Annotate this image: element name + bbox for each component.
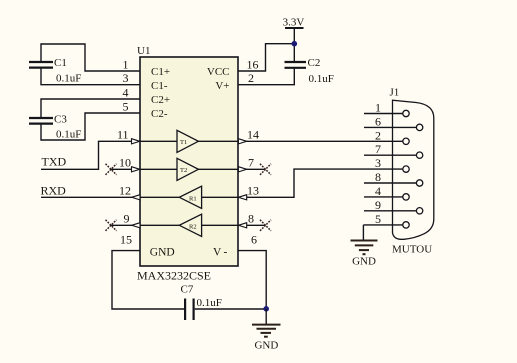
J1 pin 4 hole bbox=[403, 194, 409, 200]
svg-text:1: 1 bbox=[375, 101, 381, 115]
svg-text:6: 6 bbox=[251, 233, 257, 247]
J1 pin 7 hole bbox=[416, 152, 422, 158]
no-connect X pin9 bbox=[106, 220, 117, 231]
J1 pin 7 stub bbox=[364, 154, 416, 156]
svg-text:VCC: VCC bbox=[207, 66, 230, 78]
svg-text:C3: C3 bbox=[54, 114, 67, 126]
connector J1 shell (DB9) bbox=[393, 100, 434, 239]
svg-text:4: 4 bbox=[375, 184, 381, 198]
svg-text:8: 8 bbox=[375, 170, 381, 184]
pin direction arrow pin14 (output, right) bbox=[238, 139, 246, 144]
svg-text:RXD: RXD bbox=[41, 184, 67, 198]
svg-text:3: 3 bbox=[123, 71, 129, 85]
wire C2 bottom to pin2 bbox=[238, 68, 294, 85]
svg-text:C1-: C1- bbox=[151, 80, 168, 92]
wire RXD to pin12 bbox=[41, 196, 140, 198]
svg-text:6: 6 bbox=[375, 114, 381, 128]
pin direction arrow pin12 (output, left) bbox=[132, 195, 140, 200]
pin direction arrow pin11 (input, right) bbox=[132, 139, 140, 144]
svg-text:C2-: C2- bbox=[151, 108, 168, 120]
svg-text:9: 9 bbox=[375, 198, 381, 212]
svg-text:7: 7 bbox=[375, 142, 381, 156]
svg-text:C7: C7 bbox=[181, 284, 194, 296]
wire pin16 to 3.3V node bbox=[238, 44, 294, 71]
J1 pin 8 hole bbox=[416, 180, 422, 186]
wire C1 bottom to pin3 bbox=[41, 68, 140, 85]
svg-text:5: 5 bbox=[375, 212, 381, 226]
capacitor C1 bbox=[29, 57, 81, 84]
svg-text:V: V bbox=[213, 247, 222, 259]
pin direction arrow pin10 (input, right) bbox=[132, 167, 140, 172]
wire C3 top to pin4 bbox=[41, 99, 140, 118]
wire pin8 stub bbox=[238, 224, 266, 226]
no-connect X pin10 bbox=[106, 164, 117, 175]
svg-text:T1: T1 bbox=[180, 139, 187, 146]
wire pin9 stub bbox=[111, 224, 140, 226]
svg-text:C2+: C2+ bbox=[151, 94, 170, 106]
wire C7 to junction bbox=[195, 308, 267, 310]
wire pin7 stub bbox=[238, 168, 266, 170]
svg-text:15: 15 bbox=[120, 233, 132, 247]
buffer R2 bbox=[140, 214, 238, 236]
svg-text:T2: T2 bbox=[180, 167, 187, 174]
svg-text:10: 10 bbox=[119, 156, 131, 170]
buffer T1 bbox=[140, 130, 238, 152]
pin direction arrow pin13 (input, left) bbox=[238, 195, 246, 200]
svg-text:0.1uF: 0.1uF bbox=[56, 128, 81, 140]
J1 pin 6 hole bbox=[416, 124, 422, 130]
svg-text:2: 2 bbox=[375, 128, 381, 142]
svg-text:V+: V+ bbox=[215, 80, 229, 92]
svg-text:16: 16 bbox=[247, 57, 259, 71]
svg-text:13: 13 bbox=[247, 184, 259, 198]
J1 pin 9 stub bbox=[364, 210, 416, 212]
svg-text:1: 1 bbox=[123, 57, 129, 71]
wire C1 top to pin1 bbox=[41, 44, 140, 71]
wire C3 bottom to pin5 bbox=[41, 113, 140, 140]
junction node at C7/V- bbox=[263, 306, 269, 312]
J1 pin 5 hole bbox=[403, 222, 409, 228]
pin direction arrow pin7 (output, right) bbox=[238, 167, 246, 172]
pin direction arrow pin9 (output, left) bbox=[132, 223, 140, 228]
no-connect X pin8 bbox=[260, 220, 271, 231]
capacitor C7 bbox=[181, 284, 222, 321]
ground (at J1 pin5) bbox=[351, 241, 378, 255]
svg-text:4: 4 bbox=[123, 85, 129, 99]
svg-text:MAX3232CSE: MAX3232CSE bbox=[137, 269, 211, 283]
wire J1 pin5 to ground bbox=[362, 225, 364, 240]
svg-text:12: 12 bbox=[119, 184, 131, 198]
svg-text:TXD: TXD bbox=[42, 154, 67, 168]
svg-text:14: 14 bbox=[247, 128, 259, 142]
svg-text:0.1uF: 0.1uF bbox=[309, 73, 334, 85]
J1 pin 3 hole bbox=[403, 166, 409, 172]
svg-text:C1+: C1+ bbox=[151, 66, 170, 78]
svg-text:MUTOU: MUTOU bbox=[392, 244, 432, 256]
svg-text:GND: GND bbox=[150, 247, 175, 259]
wire pin13 to J1 pin3 bbox=[238, 169, 403, 197]
capacitor C3 bbox=[29, 114, 81, 141]
svg-text:U1: U1 bbox=[137, 45, 150, 57]
wire pin10 stub bbox=[111, 168, 140, 170]
wire pin6 down to junction bbox=[238, 251, 266, 309]
J1 pin 1 hole bbox=[403, 110, 409, 116]
J1 pin 8 stub bbox=[364, 182, 416, 184]
J1 pin 1 stub bbox=[364, 113, 403, 115]
wire TXD to pin11 bbox=[41, 141, 140, 169]
svg-text:8: 8 bbox=[248, 212, 254, 226]
buffer T2 bbox=[140, 158, 238, 180]
power symbol 3.3V bbox=[283, 16, 305, 61]
svg-text:0.1uF: 0.1uF bbox=[197, 297, 222, 309]
no-connect X pin7 bbox=[260, 164, 271, 175]
svg-text:GND: GND bbox=[254, 339, 278, 351]
op-amp U1 body (MAX3232CSE IC rectangle) bbox=[140, 57, 238, 266]
svg-text:C2: C2 bbox=[308, 57, 321, 69]
svg-text:5: 5 bbox=[123, 99, 129, 113]
svg-text:GND: GND bbox=[352, 256, 376, 268]
svg-text:3.3V: 3.3V bbox=[283, 16, 305, 28]
wire pin14 to J1 pin2 bbox=[238, 140, 403, 142]
svg-text:C1: C1 bbox=[54, 57, 67, 69]
ground (bottom, below junction) bbox=[252, 309, 281, 337]
svg-text:J1: J1 bbox=[390, 87, 400, 99]
J1 pin 2 hole bbox=[403, 138, 409, 144]
svg-text:R2: R2 bbox=[189, 223, 197, 230]
svg-text:11: 11 bbox=[117, 128, 129, 142]
svg-text:3: 3 bbox=[375, 156, 381, 170]
buffer R1 bbox=[140, 186, 238, 208]
svg-text:R1: R1 bbox=[189, 195, 197, 202]
J1 pin 9 hole bbox=[416, 208, 422, 214]
svg-text:2: 2 bbox=[248, 71, 254, 85]
wire pin15 to C7 bbox=[112, 251, 184, 309]
svg-text:-: - bbox=[224, 247, 228, 259]
svg-text:9: 9 bbox=[124, 212, 130, 226]
svg-text:0.1uF: 0.1uF bbox=[56, 73, 81, 85]
svg-text:7: 7 bbox=[248, 156, 254, 170]
J1 pin 5 stub bbox=[363, 224, 402, 226]
junction node at 3.3V bbox=[292, 41, 298, 47]
J1 pin 6 stub bbox=[364, 126, 416, 128]
pin direction arrow pin8 (input, left) bbox=[238, 223, 246, 228]
capacitor C2 bbox=[285, 57, 334, 85]
J1 pin 4 stub bbox=[364, 196, 403, 198]
